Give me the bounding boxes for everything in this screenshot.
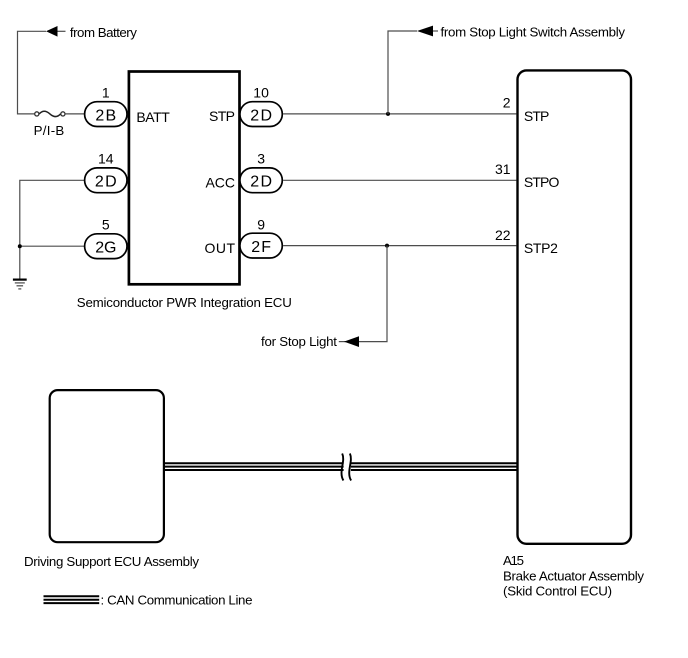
svg-text:2: 2	[503, 95, 511, 111]
junction dot OUT/stop light	[385, 244, 389, 248]
connector 2D (pin 3)	[240, 151, 282, 193]
junction dot on ground rail	[18, 244, 22, 248]
svg-text:from Stop Light Switch Assembl: from Stop Light Switch Assembly	[441, 25, 626, 40]
arrow: for Stop Light	[339, 336, 359, 347]
CAN bus (triple line), right segment	[351, 463, 517, 470]
svg-text:2B: 2B	[95, 108, 116, 125]
wire: for Stop Light elbow	[344, 246, 387, 342]
wire: ACC to Skid Control ECU	[283, 179, 516, 181]
svg-text:: CAN Communication Line: : CAN Communication Line	[101, 592, 253, 607]
ground symbol	[13, 280, 27, 289]
svg-text:2F: 2F	[251, 239, 271, 256]
svg-text:5: 5	[102, 217, 110, 233]
svg-text:STPO: STPO	[524, 174, 560, 190]
wire: STP to Skid Control ECU	[283, 113, 516, 115]
legend: CAN sample line	[44, 596, 100, 603]
svg-text:A15: A15	[503, 553, 524, 568]
svg-text:14: 14	[98, 151, 114, 167]
svg-text:31: 31	[495, 161, 511, 177]
svg-text:OUT: OUT	[205, 240, 236, 256]
Driving Support ECU box	[50, 390, 164, 542]
svg-text:ACC: ACC	[206, 175, 236, 191]
connector 2B (pin 1)	[85, 84, 127, 126]
svg-text:2G: 2G	[95, 240, 116, 257]
wire: 2G(5) to ground rail	[20, 246, 84, 279]
arrow: from Stop Light Switch Assembly	[417, 26, 438, 37]
svg-text:STP: STP	[524, 108, 550, 124]
CAN bus (triple line), left segment	[165, 463, 344, 470]
svg-text:3: 3	[257, 151, 265, 167]
connector 2F (pin 9)	[240, 216, 282, 258]
svg-text:1: 1	[102, 84, 110, 100]
wire: stop light switch elbow	[388, 31, 417, 114]
svg-text:(Skid Control ECU): (Skid Control ECU)	[503, 584, 612, 599]
bus break symbol	[342, 454, 352, 481]
wire: fuse to connector 2B	[65, 113, 84, 115]
connector 2G (pin 5)	[85, 217, 127, 259]
connector 2D (pin 14)	[85, 151, 127, 193]
connector 2D (pin 10)	[240, 84, 282, 126]
wire: battery feed elbow (top-left)	[18, 31, 47, 114]
wire: OUT to Skid Control ECU	[283, 245, 516, 247]
svg-text:for Stop Light: for Stop Light	[261, 334, 337, 349]
svg-text:2D: 2D	[250, 108, 272, 125]
svg-text:P/I-B: P/I-B	[34, 123, 65, 138]
Skid Control ECU box (Brake Actuator Assembly)	[518, 70, 632, 543]
svg-text:2D: 2D	[250, 174, 272, 191]
svg-text:from Battery: from Battery	[70, 25, 137, 40]
svg-text:2D: 2D	[95, 174, 117, 191]
svg-text:STP: STP	[209, 108, 235, 124]
svg-text:9: 9	[257, 216, 265, 232]
arrow: from Battery	[46, 26, 66, 37]
svg-text:BATT: BATT	[136, 109, 170, 125]
ECU box: Semiconductor PWR Integration ECU	[129, 72, 240, 285]
svg-text:10: 10	[253, 84, 269, 100]
svg-text:Semiconductor PWR Integration: Semiconductor PWR Integration ECU	[77, 295, 292, 310]
svg-text:Driving Support ECU Assembly: Driving Support ECU Assembly	[24, 554, 199, 569]
svg-text:22: 22	[495, 227, 511, 243]
svg-text:STP2: STP2	[524, 240, 558, 256]
junction dot STP/stop light switch	[386, 112, 390, 116]
fuse P/I-B (fusible link symbol)	[35, 111, 65, 116]
wire: 2D(14) to left rail	[20, 180, 84, 246]
svg-text:Brake Actuator Assembly: Brake Actuator Assembly	[503, 569, 644, 584]
